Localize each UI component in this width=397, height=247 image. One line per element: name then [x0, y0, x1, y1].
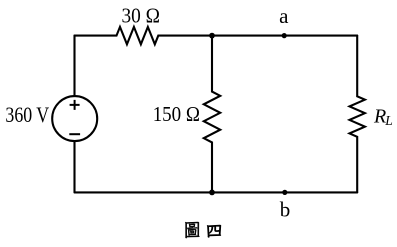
svg-text:a: a: [279, 4, 289, 28]
svg-text:L: L: [384, 113, 393, 128]
svg-text:b: b: [280, 198, 291, 222]
svg-text:30 Ω: 30 Ω: [122, 3, 161, 27]
svg-text:150 Ω: 150 Ω: [153, 102, 200, 126]
svg-text:360 V: 360 V: [5, 102, 49, 127]
